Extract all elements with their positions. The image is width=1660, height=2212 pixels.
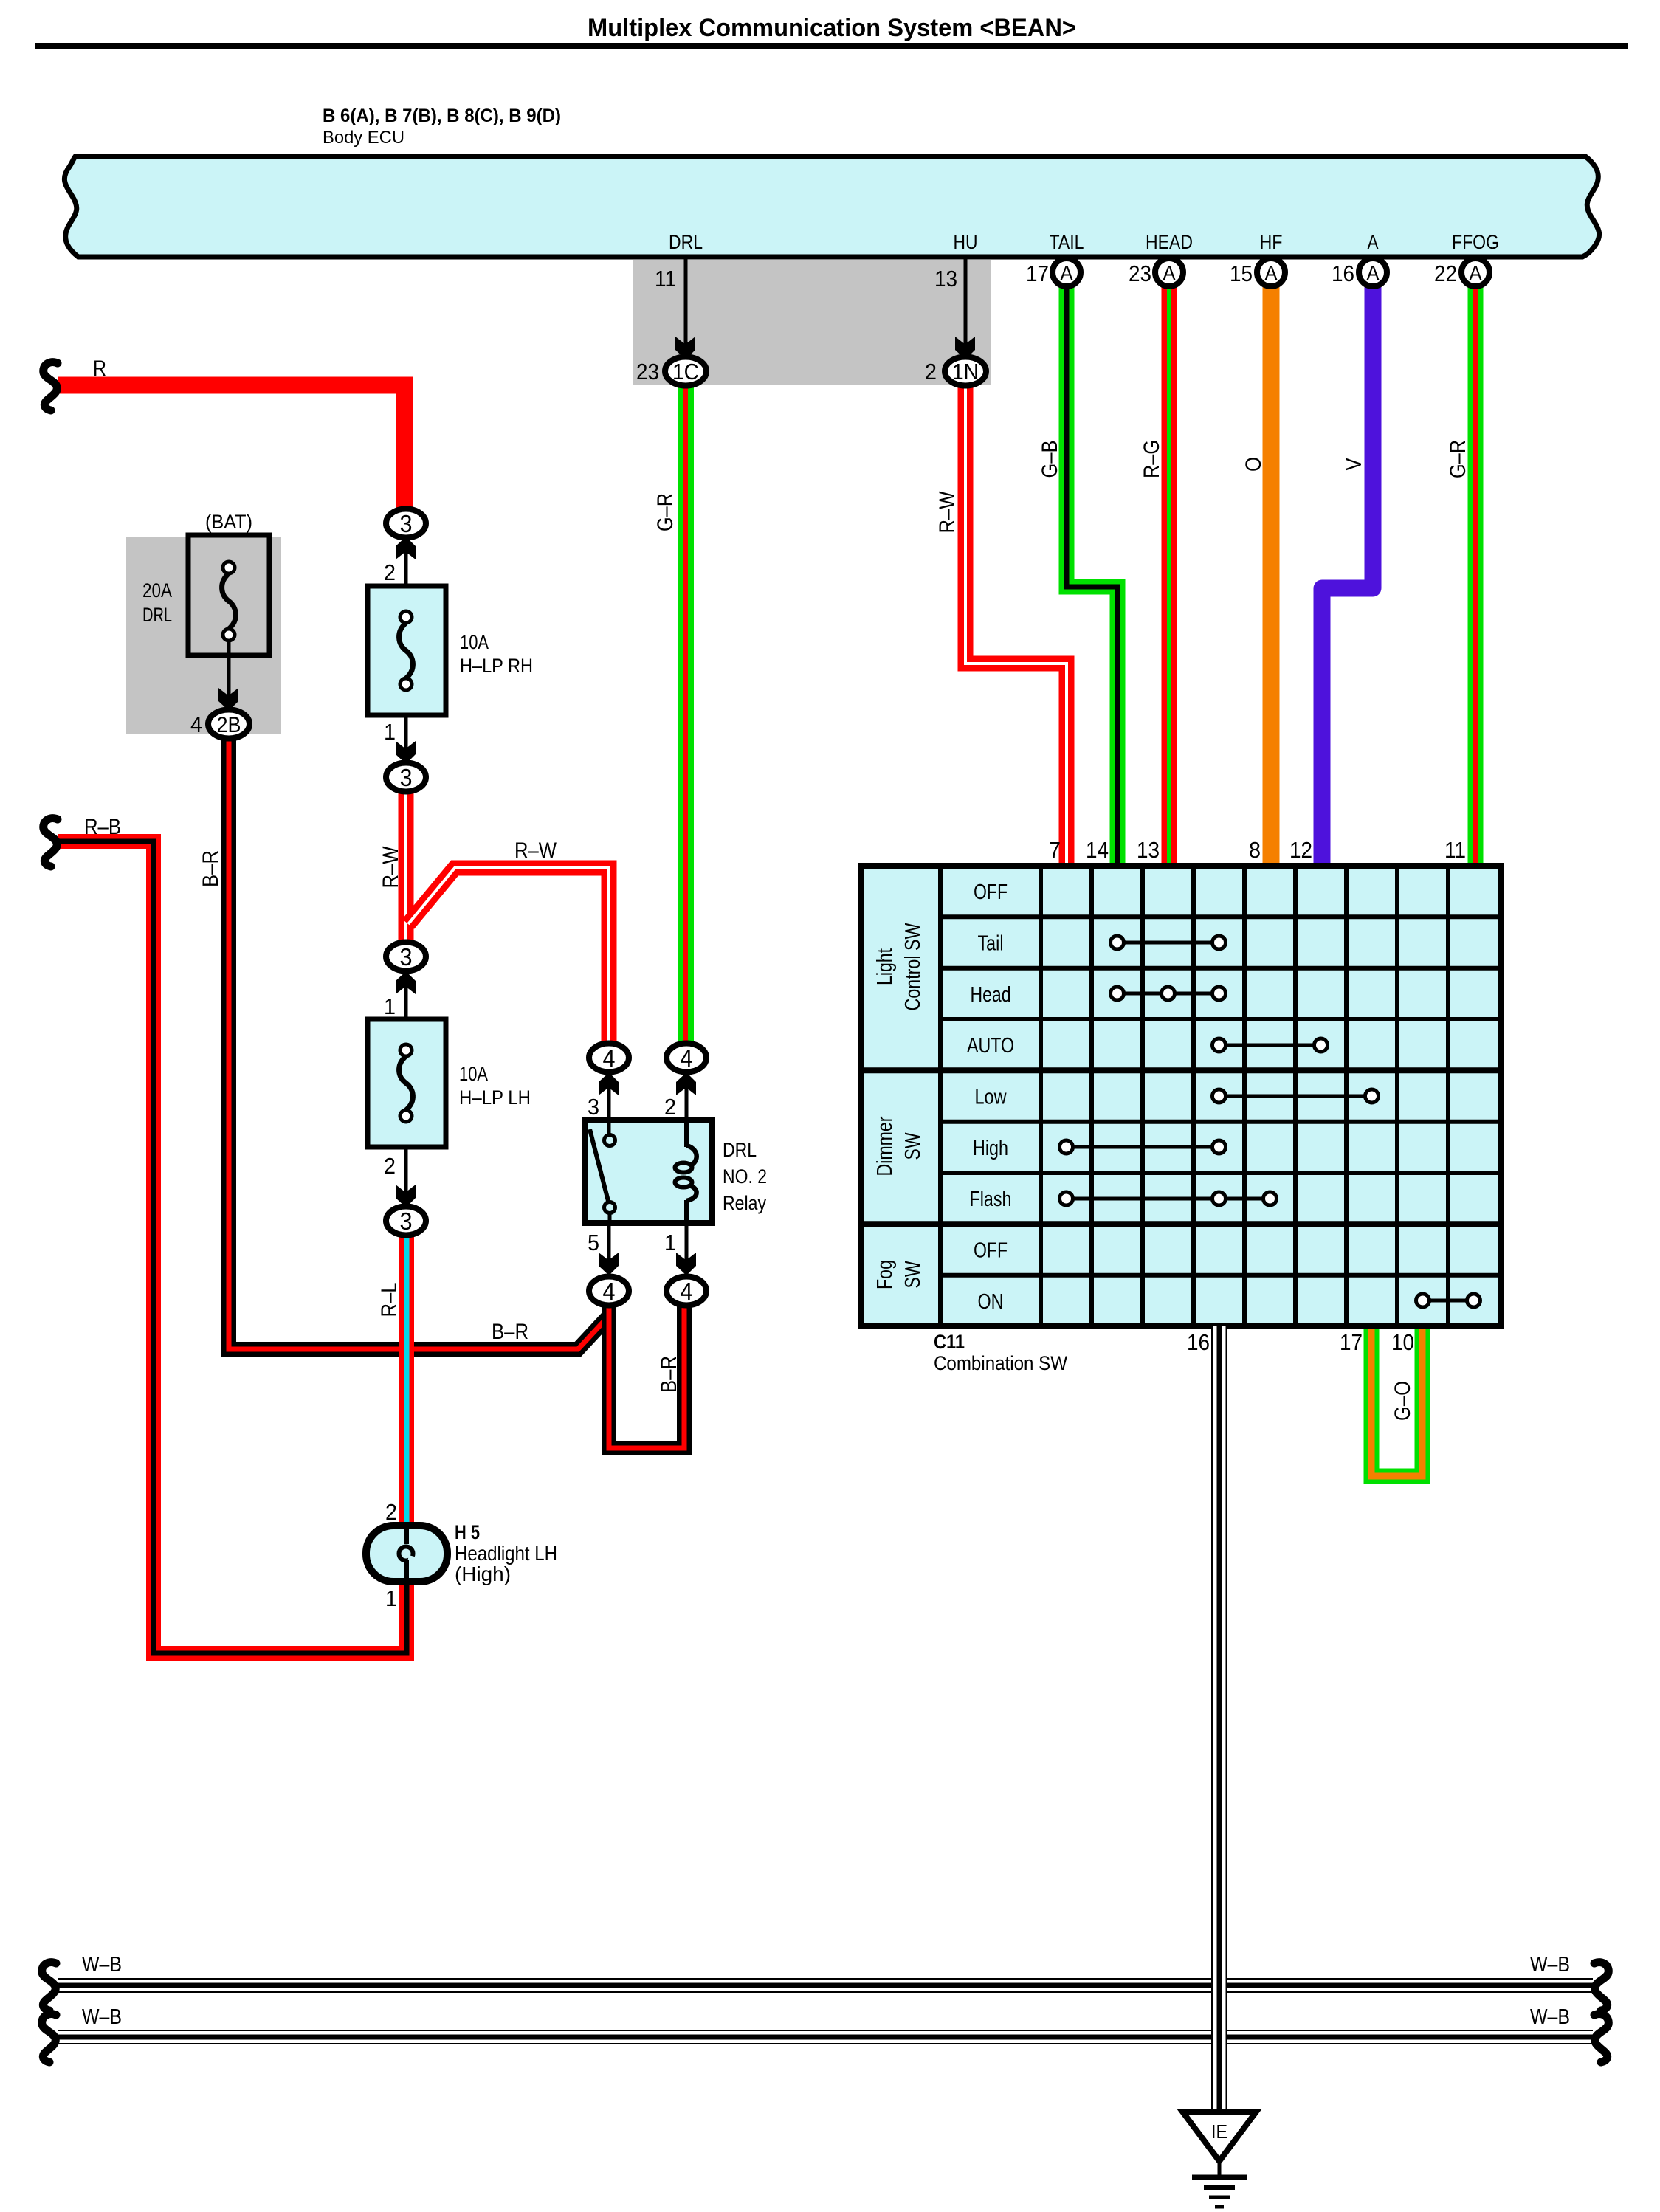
svg-text:3: 3	[400, 510, 413, 537]
svg-text:2B: 2B	[217, 713, 241, 737]
svg-text:AUTO: AUTO	[967, 1034, 1014, 1058]
svg-text:ON: ON	[978, 1290, 1004, 1314]
svg-text:Head: Head	[971, 983, 1011, 1007]
svg-text:2: 2	[385, 1499, 397, 1525]
svg-text:Flash: Flash	[970, 1188, 1012, 1211]
svg-text:Control SW: Control SW	[901, 923, 925, 1010]
svg-text:G–B: G–B	[1038, 441, 1062, 478]
svg-text:1N: 1N	[952, 359, 979, 385]
svg-text:2: 2	[384, 1153, 396, 1179]
svg-text:8: 8	[1249, 837, 1261, 863]
svg-text:A: A	[1265, 261, 1278, 284]
svg-text:23: 23	[636, 359, 659, 385]
svg-text:17: 17	[1026, 261, 1049, 286]
svg-text:OFF: OFF	[974, 881, 1008, 904]
svg-text:13: 13	[1137, 837, 1160, 863]
svg-text:Combination SW: Combination SW	[934, 1352, 1067, 1374]
svg-text:R–W: R–W	[935, 491, 960, 534]
svg-text:H–LP RH: H–LP RH	[460, 655, 533, 677]
svg-text:10A: 10A	[459, 1063, 488, 1085]
svg-text:Tail: Tail	[978, 932, 1004, 956]
svg-text:1: 1	[385, 1585, 397, 1611]
svg-text:OFF: OFF	[974, 1239, 1008, 1263]
svg-text:HF: HF	[1260, 231, 1283, 253]
svg-text:B–R: B–R	[492, 1320, 528, 1344]
svg-text:1: 1	[384, 993, 396, 1019]
svg-text:H–LP LH: H–LP LH	[459, 1086, 531, 1109]
svg-text:V: V	[1342, 458, 1366, 471]
svg-text:B–R: B–R	[657, 1356, 681, 1393]
svg-text:G–R: G–R	[1446, 440, 1470, 478]
svg-text:A: A	[1470, 261, 1482, 284]
svg-text:(BAT): (BAT)	[205, 511, 252, 533]
svg-text:Body ECU: Body ECU	[323, 128, 404, 148]
svg-text:High: High	[973, 1137, 1008, 1160]
svg-text:1C: 1C	[672, 359, 699, 385]
svg-text:3: 3	[400, 1207, 413, 1235]
svg-text:DRL: DRL	[669, 231, 703, 253]
svg-text:W–B: W–B	[1530, 2005, 1570, 2029]
svg-text:H 5: H 5	[455, 1521, 480, 1543]
svg-text:12: 12	[1289, 837, 1312, 863]
svg-text:23: 23	[1129, 261, 1151, 286]
svg-text:4: 4	[681, 1278, 693, 1305]
svg-text:Relay: Relay	[723, 1192, 766, 1214]
svg-text:IE: IE	[1211, 2120, 1227, 2143]
svg-text:1: 1	[664, 1230, 676, 1255]
svg-text:11: 11	[1444, 837, 1466, 863]
svg-text:Multiplex Communication System: Multiplex Communication System <BEAN>	[588, 14, 1076, 42]
svg-text:4: 4	[603, 1044, 616, 1072]
svg-text:1: 1	[384, 719, 396, 745]
svg-text:R–W: R–W	[379, 846, 403, 889]
svg-text:13: 13	[934, 266, 957, 292]
svg-text:Dimmer: Dimmer	[873, 1116, 897, 1176]
svg-text:W–B: W–B	[82, 2005, 122, 2029]
svg-text:HU: HU	[954, 231, 978, 253]
svg-text:R: R	[93, 356, 106, 381]
svg-text:W–B: W–B	[1530, 1953, 1570, 1977]
svg-text:R–W: R–W	[514, 838, 557, 863]
svg-text:Low: Low	[975, 1086, 1008, 1109]
svg-text:NO. 2: NO. 2	[723, 1165, 767, 1188]
svg-text:SW: SW	[901, 1261, 925, 1288]
svg-text:A: A	[1368, 231, 1379, 253]
svg-text:22: 22	[1434, 261, 1457, 286]
svg-text:A: A	[1061, 261, 1073, 284]
svg-text:O: O	[1241, 457, 1266, 472]
svg-text:TAIL: TAIL	[1050, 231, 1084, 253]
svg-text:5: 5	[588, 1230, 599, 1255]
svg-text:HEAD: HEAD	[1146, 231, 1193, 253]
svg-text:2: 2	[664, 1094, 676, 1120]
svg-text:FFOG: FFOG	[1452, 231, 1499, 253]
svg-text:R–G: R–G	[1140, 440, 1164, 478]
svg-text:14: 14	[1086, 837, 1109, 863]
svg-text:2: 2	[384, 559, 396, 585]
svg-text:17: 17	[1340, 1329, 1363, 1355]
svg-text:Light: Light	[873, 948, 897, 985]
svg-text:11: 11	[655, 266, 676, 292]
svg-text:4: 4	[190, 712, 202, 737]
svg-text:10: 10	[1391, 1329, 1414, 1355]
svg-text:A: A	[1367, 261, 1380, 284]
svg-text:4: 4	[681, 1044, 693, 1072]
svg-text:R–B: R–B	[84, 815, 121, 839]
svg-text:A: A	[1163, 261, 1176, 284]
svg-text:3: 3	[400, 764, 413, 791]
svg-text:Fog: Fog	[873, 1260, 897, 1289]
svg-text:Headlight LH: Headlight LH	[455, 1542, 557, 1565]
svg-text:B–R: B–R	[199, 850, 223, 887]
svg-text:DRL: DRL	[723, 1139, 757, 1161]
svg-text:10A: 10A	[460, 631, 489, 653]
svg-text:SW: SW	[901, 1132, 925, 1160]
svg-text:G–R: G–R	[653, 493, 678, 531]
svg-text:4: 4	[603, 1278, 616, 1305]
svg-text:7: 7	[1049, 837, 1061, 863]
svg-text:20A: 20A	[142, 579, 172, 602]
svg-text:15: 15	[1230, 261, 1253, 286]
svg-text:DRL: DRL	[142, 604, 172, 626]
svg-text:3: 3	[400, 943, 413, 971]
svg-text:R–L: R–L	[377, 1283, 402, 1317]
svg-text:16: 16	[1332, 261, 1354, 286]
svg-text:W–B: W–B	[82, 1953, 122, 1977]
svg-text:(High): (High)	[455, 1562, 511, 1585]
svg-text:C11: C11	[934, 1331, 965, 1353]
svg-text:3: 3	[588, 1094, 599, 1120]
svg-text:16: 16	[1187, 1329, 1210, 1355]
svg-text:B 6(A), B 7(B), B 8(C), B 9(D): B 6(A), B 7(B), B 8(C), B 9(D)	[323, 106, 561, 126]
svg-text:2: 2	[925, 359, 937, 385]
svg-text:G–O: G–O	[1391, 1381, 1415, 1421]
